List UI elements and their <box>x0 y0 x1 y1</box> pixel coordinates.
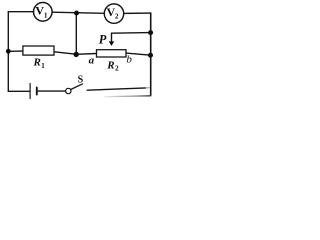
svg-text:1: 1 <box>41 62 45 70</box>
svg-text:R: R <box>33 57 41 69</box>
svg-text:1: 1 <box>44 11 48 20</box>
svg-text:2: 2 <box>115 11 119 20</box>
svg-text:a: a <box>89 55 95 67</box>
svg-text:2: 2 <box>115 64 119 72</box>
svg-text:P: P <box>99 33 107 47</box>
svg-text:R: R <box>106 59 114 71</box>
svg-text:S: S <box>78 75 84 86</box>
svg-text:b: b <box>126 54 132 66</box>
